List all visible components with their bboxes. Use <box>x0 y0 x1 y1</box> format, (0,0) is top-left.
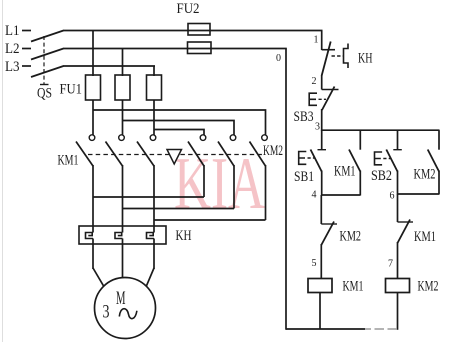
thermal relay KH heaters <box>79 226 166 244</box>
svg-text:SB3: SB3 <box>294 109 314 125</box>
wire KM2 pole bottoms <box>204 165 266 220</box>
wire join pole 3 <box>154 219 266 221</box>
contactor KM1 NC interlock <box>398 194 414 243</box>
svg-text:2: 2 <box>312 76 317 87</box>
svg-text:KM2: KM2 <box>263 143 283 159</box>
wire <box>22 48 31 50</box>
svg-text:SB2: SB2 <box>371 168 392 184</box>
svg-text:KIA: KIA <box>174 143 265 225</box>
wire <box>321 75 323 90</box>
wire L1 bus <box>63 30 323 32</box>
wire <box>22 65 31 67</box>
contactor KM2 main contacts <box>188 135 267 166</box>
motor M <box>95 278 156 339</box>
wire <box>320 244 322 279</box>
wire bottom return <box>286 328 365 330</box>
svg-text:KM1: KM1 <box>343 279 364 295</box>
contactor KM2 auxiliary contact <box>428 130 439 171</box>
wire <box>321 171 323 196</box>
wire <box>122 49 124 77</box>
disconnect switch QS linkage <box>40 36 49 85</box>
svg-text:KM2: KM2 <box>418 279 439 295</box>
wire control feed <box>321 31 323 51</box>
wire <box>397 171 399 195</box>
svg-text:3: 3 <box>103 302 110 323</box>
coil KM2 <box>386 279 410 293</box>
contactor KM1 main contacts <box>76 135 156 166</box>
coil KM1 <box>308 279 332 293</box>
wire join pole 2 <box>123 208 235 210</box>
svg-text:5: 5 <box>312 258 317 269</box>
contactor KM1 auxiliary contact <box>349 130 360 171</box>
svg-text:M: M <box>116 288 126 309</box>
wire join pole 1 <box>93 196 204 198</box>
svg-text:3: 3 <box>315 122 320 133</box>
wire phase tap to KM2 pole 2 <box>123 121 235 135</box>
wire <box>397 242 399 279</box>
svg-text:KM2: KM2 <box>340 229 362 245</box>
svg-text:L1: L1 <box>5 23 20 39</box>
wire <box>122 100 124 135</box>
wire L2 bus <box>63 48 287 50</box>
wire motor lead right <box>146 268 154 286</box>
svg-text:KM2: KM2 <box>414 167 436 183</box>
svg-text:KH: KH <box>358 51 373 67</box>
wire L3 bus <box>63 65 155 67</box>
wire phase tap to KM2 pole 1 <box>154 130 204 135</box>
disconnect switch QS pole 1 <box>31 31 64 42</box>
svg-text:KM1: KM1 <box>414 229 436 245</box>
wire <box>321 109 323 131</box>
wire <box>359 171 361 196</box>
wire join SB1/KM1aux <box>322 194 361 196</box>
wire <box>22 30 31 32</box>
disconnect switch QS pole 2 <box>31 49 64 60</box>
wire <box>92 31 94 77</box>
wire control branch bus <box>322 129 440 131</box>
wire <box>122 239 124 279</box>
svg-text:KM1: KM1 <box>334 164 356 180</box>
wire <box>438 171 440 195</box>
svg-text:7: 7 <box>388 259 393 270</box>
pushbutton SB2 start NO <box>375 130 402 171</box>
wire KM1 pole bottoms <box>93 165 154 233</box>
wire <box>153 66 155 76</box>
svg-text:QS: QS <box>37 86 52 102</box>
svg-text:0: 0 <box>276 53 281 64</box>
wire <box>92 239 94 270</box>
svg-text:4: 4 <box>312 190 317 201</box>
svg-text:SB1: SB1 <box>294 169 314 185</box>
svg-text:L3: L3 <box>5 59 20 75</box>
pushbutton SB3 stop NC <box>309 87 338 111</box>
contactor KM2 NC interlock <box>321 195 337 245</box>
wire phase tap to KM2 pole 3 <box>93 110 266 135</box>
wire join SB2/KM2aux <box>398 193 440 195</box>
linkage triangle <box>167 150 182 165</box>
wire neutral 0 line <box>285 49 287 330</box>
wire motor lead left <box>93 268 104 286</box>
thermal relay KH NC contact <box>322 42 348 76</box>
svg-text:FU2: FU2 <box>177 1 200 17</box>
svg-text:KH: KH <box>176 228 192 244</box>
wire <box>397 293 399 330</box>
svg-text:KM1: KM1 <box>58 153 79 169</box>
svg-text:1: 1 <box>314 35 319 46</box>
svg-text:FU1: FU1 <box>60 82 83 98</box>
svg-text:6: 6 <box>390 191 395 202</box>
wire <box>92 100 94 135</box>
wire <box>153 100 155 135</box>
wire <box>153 239 155 270</box>
svg-text:L2: L2 <box>5 41 20 57</box>
wire <box>319 293 321 330</box>
mechanical linkage <box>88 154 263 156</box>
disconnect switch QS pole 3 <box>31 66 64 77</box>
pushbutton SB1 start NO <box>299 130 326 171</box>
